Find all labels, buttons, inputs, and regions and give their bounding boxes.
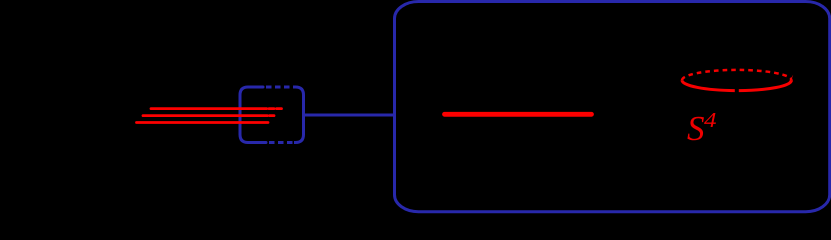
connecting wire small box to big box (304, 114, 395, 117)
brane line 2 dashed continuation (270, 114, 275, 117)
arrow flare at right end of ellipse (788, 75, 794, 85)
svg-text:S: S (687, 109, 705, 148)
brane line 1 dashed continuation (269, 107, 282, 110)
small rounded box solid part (left edge, left halves of top/bottom) (240, 87, 266, 143)
big rounded box (near-horizon region) (395, 2, 830, 212)
thick red brane segment inside big box (445, 112, 592, 117)
brane line 1 (top) solid (151, 107, 267, 110)
S4 sphere ellipse: solid front (bottom) arc, left part (682, 80, 735, 90)
small rounded box right edge with corners (294, 87, 304, 143)
brane line 3 (bottom) solid (137, 121, 269, 124)
svg-text:4: 4 (704, 108, 717, 132)
small rounded box dashed top edge (266, 86, 294, 89)
small rounded box dashed bottom edge (269, 141, 294, 144)
S4 sphere ellipse: dashed back (top) arc (682, 70, 792, 80)
brane line 2 (middle) solid (143, 114, 267, 117)
S4 sphere ellipse: solid front (bottom) arc, right part (739, 80, 792, 90)
